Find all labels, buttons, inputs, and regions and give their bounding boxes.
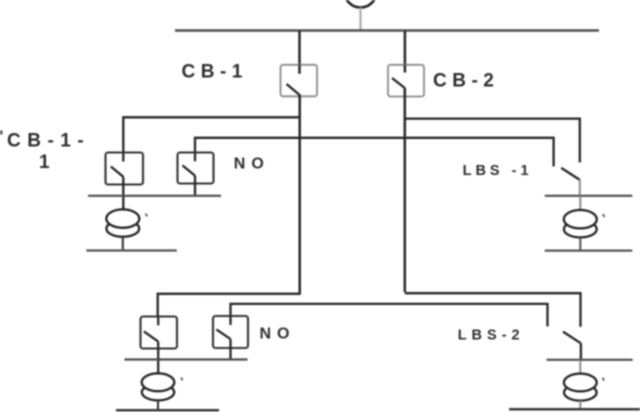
svg-text:NO: NO: [260, 326, 296, 343]
wire bus to T2: [579, 196, 581, 210]
wire T1 to lower bus: [122, 237, 124, 251]
wire T2 to lower bus: [579, 237, 581, 250]
breaker NO upper: [178, 153, 214, 184]
svg-text:LBS -1: LBS -1: [463, 163, 533, 179]
wire source drop to bus: [359, 8, 361, 31]
breaker NO lower: [213, 316, 248, 348]
secondary bus lower-right bottom: [509, 408, 640, 411]
source circle G1: [345, 0, 377, 8]
svg-text:CB-2: CB-2: [433, 71, 499, 92]
wire CB-1 down feeder: [298, 95, 301, 295]
secondary bus upper-right lower: [545, 250, 633, 252]
wire NO upper stub down: [194, 176, 196, 196]
bus main horizontal: [175, 29, 599, 32]
secondary bus lower-left bottom: [116, 409, 219, 412]
wire tie line NO lower to LBS-2: [231, 304, 548, 327]
secondary bus upper-left lower: [86, 249, 177, 251]
secondary bus upper-right: [545, 195, 633, 197]
wire LBS-2 to bus: [580, 343, 582, 360]
wire CB-1-1 to transformer: [122, 177, 124, 210]
transformer T3: [142, 373, 183, 400]
wire CB-2 down feeder: [404, 88, 407, 292]
wire LBS-1 to bus: [579, 180, 581, 196]
wire lower-left breaker down: [157, 342, 159, 374]
wire T4 down: [579, 401, 581, 410]
wire bus to T4: [579, 360, 581, 374]
secondary bus lower-left: [125, 358, 248, 360]
wire bus to CB-1: [298, 31, 301, 74]
wire feeder to lower-left breaker: [158, 294, 300, 317]
svg-text:CB-1: CB-1: [182, 62, 248, 83]
switch LBS-2 blade: [563, 332, 581, 344]
secondary bus lower-right: [547, 359, 633, 361]
breaker CB-1-1: [106, 153, 144, 185]
transformer T4: [564, 374, 604, 401]
wire tie line NO upper to LBS-1: [195, 138, 554, 167]
svg-text:1: 1: [39, 152, 50, 173]
transformer T2: [564, 210, 605, 237]
wire feeder CB-2 to LBS-1 right: [405, 119, 580, 163]
wire NO lower stub down: [229, 339, 231, 359]
breaker lower-left: [141, 317, 178, 349]
svg-text:CB-1-: CB-1-: [7, 131, 90, 152]
switch LBS-1 blade: [561, 168, 580, 180]
wire feeder CB-2 to LBS-2 right: [405, 293, 581, 327]
breaker CB-2: [388, 65, 424, 97]
edge mark left: [0, 131, 3, 135]
breaker CB-1: [281, 65, 318, 97]
wire feeder to CB-1-1: [123, 117, 299, 152]
secondary bus upper-left: [88, 195, 221, 197]
transformer T1: [106, 209, 147, 236]
svg-text:NO: NO: [234, 156, 270, 173]
wire T3 down: [157, 400, 159, 410]
svg-text:LBS-2: LBS-2: [458, 328, 525, 344]
wire bus to CB-2: [404, 31, 407, 73]
